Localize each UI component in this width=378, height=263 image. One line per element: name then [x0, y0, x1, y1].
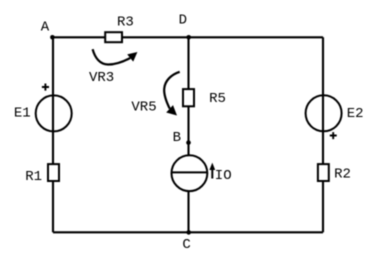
svg-text:R5: R5: [209, 91, 226, 107]
svg-text:E1: E1: [14, 106, 31, 122]
svg-text:B: B: [173, 130, 181, 146]
svg-text:C: C: [182, 237, 190, 253]
svg-text:VR3: VR3: [89, 70, 114, 86]
svg-text:A: A: [41, 19, 50, 35]
svg-text:R2: R2: [334, 167, 351, 183]
svg-text:IO: IO: [215, 168, 232, 184]
svg-text:E2: E2: [347, 106, 364, 122]
svg-text:R1: R1: [25, 169, 42, 185]
svg-text:VR5: VR5: [131, 100, 156, 116]
svg-text:R3: R3: [117, 15, 134, 31]
svg-text:D: D: [179, 13, 187, 29]
